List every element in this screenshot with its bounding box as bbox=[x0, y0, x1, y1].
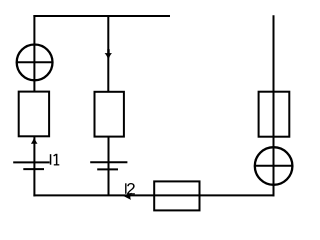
resistor R1 (left box) bbox=[19, 92, 49, 137]
current arrow I1 (up) bbox=[31, 136, 38, 144]
wire: middle branch vertical upper bbox=[107, 15, 109, 92]
battery E1: long plate bbox=[13, 161, 49, 163]
current arrow (down) on middle branch bbox=[107, 49, 109, 53]
current arrow I2 (left) bbox=[123, 193, 132, 200]
current source U2 (circle with cross) bbox=[255, 147, 293, 185]
wire: left branch vertical upper bbox=[33, 15, 35, 92]
battery E1: short plate bbox=[23, 168, 44, 170]
resistor R3 (bottom box, wire passes through) bbox=[154, 181, 199, 210]
label I2 bbox=[125, 183, 135, 194]
wire: bottom bus bbox=[33, 194, 274, 196]
resistor R2 (middle box) bbox=[95, 92, 124, 137]
wire: middle branch vertical lower bbox=[108, 137, 110, 196]
current source U1 (circle with cross) bbox=[17, 45, 53, 81]
wire: right branch vertical (through box and circle) bbox=[273, 15, 275, 196]
resistor R4 (right box, wire passes through) bbox=[259, 92, 290, 137]
battery E2: short plate bbox=[97, 168, 118, 170]
battery E2: long plate bbox=[90, 161, 127, 163]
label I1 bbox=[50, 154, 60, 166]
wire: top bus bbox=[33, 15, 170, 17]
wire: left branch vertical lower bbox=[33, 136, 35, 196]
